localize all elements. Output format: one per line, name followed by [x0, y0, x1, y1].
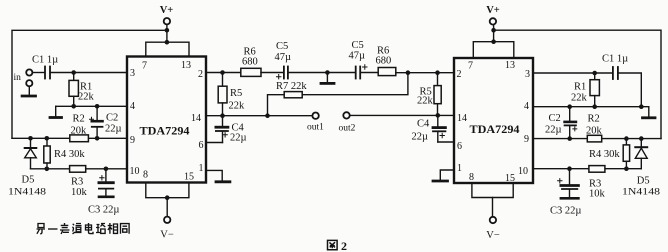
pin 3 label right IC: [525, 69, 530, 80]
ground on pin4 row: [50, 106, 62, 117]
wire pin 6 left: [206, 142, 223, 144]
resistor R7 22k bridge: [268, 73, 408, 116]
capacitor C2 right: [545, 107, 577, 139]
svg-text:1N4148: 1N4148: [8, 188, 46, 198]
pin 6 label right IC: [457, 141, 462, 152]
svg-text:R4 30k: R4 30k: [54, 149, 85, 160]
svg-text:4: 4: [130, 101, 135, 112]
out2 terminal: [339, 112, 356, 133]
resistor R6 right 680: [376, 46, 396, 76]
svg-text:4: 4: [524, 101, 529, 112]
wire top-left feedback from V+ to left stby row: [12, 30, 167, 138]
node V+ left junction: [165, 28, 170, 45]
node R1 bottom right: [592, 104, 597, 109]
svg-text:14: 14: [191, 113, 201, 124]
svg-text:22µ: 22µ: [105, 124, 122, 135]
ground below input: [22, 87, 35, 97]
svg-text:13: 13: [505, 60, 515, 71]
svg-text:V+: V+: [160, 5, 174, 16]
resistor R3 right: [589, 166, 606, 200]
node R4 bottom: [45, 167, 50, 172]
svg-text:9: 9: [130, 135, 135, 146]
pin 6 label: [199, 140, 204, 151]
node R4 top: [45, 136, 50, 141]
svg-text:R4 30k: R4 30k: [589, 149, 620, 160]
svg-text:out1: out1: [307, 123, 324, 133]
svg-text:2: 2: [457, 69, 462, 80]
node D5 top right: [639, 136, 644, 141]
wire pins 8,15 bracket to V- left: [146, 183, 189, 217]
svg-text:1: 1: [457, 163, 462, 174]
node C1 corner right: [639, 104, 644, 109]
svg-text:22k: 22k: [229, 101, 246, 112]
pin 1 label right IC: [457, 163, 462, 174]
node C2 bottom right: [567, 136, 572, 141]
node mid ground: [325, 70, 330, 75]
pin 7 label right IC: [468, 61, 473, 72]
capacitor C4 left: [216, 116, 247, 144]
resistor R3 left: [70, 166, 88, 198]
svg-text:1: 1: [199, 163, 204, 174]
node R1 top: [71, 70, 76, 75]
svg-text:V−: V−: [486, 230, 500, 241]
svg-text:1N4148: 1N4148: [622, 188, 660, 198]
text 另一声道电路相同: [37, 223, 130, 234]
svg-text:22µ: 22µ: [230, 133, 247, 144]
capacitor C1 left: [32, 55, 58, 79]
svg-text:out2: out2: [339, 124, 356, 134]
pin 7 label: [142, 61, 147, 72]
wire C1 right corner down: [619, 73, 641, 107]
svg-text:C4: C4: [417, 119, 430, 130]
wire pin 3 row right: [533, 72, 612, 74]
resistor R4 right: [589, 139, 630, 169]
capacitor C5 left 47u: [275, 41, 292, 79]
node R1 top right: [592, 71, 597, 76]
svg-text:3: 3: [525, 69, 530, 80]
svg-text:TDA7294: TDA7294: [140, 126, 190, 138]
svg-text:D5: D5: [637, 176, 650, 187]
svg-text:22k: 22k: [78, 92, 95, 103]
capacitor C1 right: [602, 54, 628, 80]
pin 1 label: [199, 163, 204, 174]
node V+ right junction: [491, 28, 496, 44]
svg-text:15: 15: [184, 172, 194, 183]
svg-text:10k: 10k: [589, 189, 606, 200]
pin 4 label right IC: [524, 101, 529, 112]
svg-text:13: 13: [181, 60, 191, 71]
wire V+ terminal drop to pins 7,13 bracket: [146, 25, 189, 57]
capacitor C3 left: [88, 169, 119, 216]
V- terminal left: [160, 217, 174, 241]
svg-text:6: 6: [199, 140, 204, 151]
node R5 top right: [435, 70, 440, 75]
svg-text:R7 22k: R7 22k: [276, 81, 307, 92]
wire pin 4 row left: [56, 105, 127, 107]
op-amp U1 TDA7294 left: [127, 57, 206, 183]
wire V+ right drop to pins 7,13 bracket: [473, 25, 514, 58]
wire pin 6 right: [438, 141, 454, 143]
svg-text:C5: C5: [276, 41, 288, 52]
node R4 bottom right: [624, 166, 629, 171]
wire pins 8,15 bracket to V- right: [472, 183, 513, 217]
svg-text:680: 680: [242, 57, 258, 68]
wire pin 9 row right: [533, 138, 661, 140]
svg-text:C3 22µ: C3 22µ: [550, 206, 581, 217]
svg-text:D5: D5: [22, 175, 35, 186]
wire C5 to R6 right: [362, 72, 379, 74]
V- terminal right: [486, 217, 500, 241]
svg-text:V+: V+: [486, 5, 500, 16]
svg-text:47µ: 47µ: [349, 51, 366, 62]
pin 2 label: [198, 69, 203, 80]
pin 10 label: [130, 166, 140, 177]
wire top-right feedback from V+ to right stby row: [494, 30, 661, 138]
pin 10 label right IC: [518, 166, 528, 177]
node C2 top: [95, 104, 100, 109]
V+ terminal left: [160, 5, 174, 24]
diode D5 right 1N4148: [622, 139, 660, 198]
pin 4 label: [130, 101, 135, 112]
ground on pin4 row right: [641, 107, 655, 118]
svg-text:R3: R3: [71, 177, 83, 188]
capacitor C3 right: [550, 169, 581, 217]
svg-text:22k: 22k: [417, 96, 434, 107]
node R5 bottom / C4 top right: [436, 113, 441, 118]
svg-text:8: 8: [469, 172, 474, 183]
pin 8 label: [143, 170, 148, 181]
pin 13 label: [181, 60, 191, 71]
svg-text:V−: V−: [160, 230, 174, 241]
resistor R2 right: [586, 114, 603, 142]
node C2 bottom: [95, 136, 100, 141]
V+ terminal right: [486, 5, 500, 25]
resistor R5 left 22k: [218, 73, 245, 116]
wire pin 14 row left to out1: [206, 115, 312, 117]
svg-text:680: 680: [376, 56, 392, 67]
wire R6 to C5 left: [261, 72, 283, 74]
svg-text:R1: R1: [574, 82, 586, 93]
resistor R1 right: [571, 73, 599, 107]
node C2 top right: [567, 104, 572, 109]
svg-text:22µ: 22µ: [545, 125, 562, 136]
svg-text:22k: 22k: [571, 93, 588, 104]
capacitor C4 right: [412, 115, 446, 142]
wire R6 to pin 2 right IC: [396, 72, 454, 74]
text caption 图2: [328, 239, 348, 252]
node R5 top left: [220, 70, 225, 75]
pin 9 label: [130, 135, 135, 146]
pin 8 label right IC: [469, 172, 474, 183]
resistor R6 left 680: [241, 47, 261, 77]
svg-text:20k: 20k: [71, 126, 88, 137]
svg-text:7: 7: [142, 61, 147, 72]
node R4 top right: [624, 136, 629, 141]
svg-text:C1 1µ: C1 1µ: [602, 54, 628, 65]
resistor R4 left: [44, 138, 86, 169]
svg-text:2: 2: [198, 69, 203, 80]
svg-text:10: 10: [130, 166, 140, 177]
svg-text:C3 22µ: C3 22µ: [88, 205, 119, 216]
svg-text:2: 2: [341, 239, 347, 252]
svg-text:6: 6: [457, 141, 462, 152]
wire pin 9 row left: [12, 137, 127, 139]
resistor R2 left: [70, 114, 89, 142]
svg-text:TDA7294: TDA7294: [470, 124, 520, 136]
svg-text:47µ: 47µ: [275, 52, 292, 63]
out1 terminal: [307, 113, 324, 133]
node V- bracket: [165, 195, 170, 200]
pin 2 label right IC: [457, 69, 462, 80]
svg-text:R2: R2: [588, 114, 600, 125]
capacitor C5 right 47u: [349, 40, 368, 79]
pin 9 label right IC: [524, 134, 529, 145]
node D5 top: [28, 136, 33, 141]
wire pin 1 to ground right: [433, 170, 454, 181]
svg-text:R5: R5: [230, 88, 242, 99]
wire pin 14 row right: [350, 114, 454, 116]
node C3 top: [104, 167, 109, 172]
node R7 branch: [265, 113, 270, 118]
pin 14 label: [191, 113, 201, 124]
wire C5 to mid ground left: [289, 72, 355, 74]
svg-text:C1 1µ: C1 1µ: [32, 55, 58, 66]
wire pin 2 row left: [206, 72, 241, 74]
wire pin 1 to ground left: [206, 170, 230, 181]
svg-text:7: 7: [468, 61, 473, 72]
wire pin 10 row right: [533, 168, 641, 170]
svg-text:22µ: 22µ: [412, 132, 429, 143]
ground mid top: [321, 73, 334, 84]
pin 3 label: [130, 68, 135, 79]
svg-text:8: 8: [143, 170, 148, 181]
svg-text:C2: C2: [549, 113, 561, 124]
resistor R5 right 22k: [417, 73, 441, 116]
input terminal in: [14, 69, 33, 86]
resistor R1 left: [69, 73, 95, 107]
pin 15 label: [184, 172, 194, 183]
wire C1 to pin 3: [51, 72, 127, 74]
wire pin 10 row left: [31, 168, 128, 170]
svg-text:10: 10: [518, 166, 528, 177]
svg-text:10k: 10k: [71, 187, 88, 198]
svg-text:9: 9: [524, 134, 529, 145]
svg-text:C5: C5: [352, 40, 364, 51]
svg-text:R2: R2: [73, 114, 85, 125]
node C3 top right: [567, 166, 572, 171]
wire pin 4 row right: [533, 106, 641, 108]
pin 14 label right IC: [457, 113, 467, 124]
svg-text:14: 14: [457, 113, 467, 124]
svg-text:20k: 20k: [586, 126, 603, 137]
pin 13 label right IC: [505, 60, 515, 71]
svg-text:3: 3: [130, 68, 135, 79]
node R1 bottom: [71, 104, 76, 109]
diode D5 left 1N4148: [8, 138, 46, 197]
capacitor C2 left: [90, 106, 122, 138]
node R7 top: [406, 70, 411, 75]
svg-text:in: in: [14, 73, 22, 83]
op-amp U2 TDA7294 right: [454, 58, 533, 183]
node R5 bottom / C4 top left: [220, 113, 225, 118]
pin 15 label right IC: [505, 173, 515, 184]
svg-text:C2: C2: [106, 113, 118, 124]
